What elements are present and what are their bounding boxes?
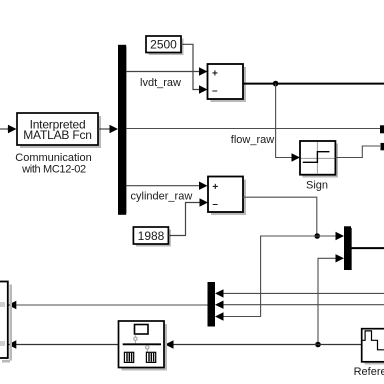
wire junction J1 down to Sign [276,84,300,162]
mux M2 bar (flipped) [208,282,216,327]
cropped port box B2 [381,143,384,150]
label Communication with MC12-02 [15,152,91,176]
far-left block (cropped subsystem) [0,282,12,363]
sum block S2 [208,177,246,216]
demux D1 bar [118,45,127,215]
svg-text:Communication: Communication [15,152,91,164]
Sign block [300,141,338,178]
wire Reference up to mux M1 input 2 [318,254,344,344]
wire MATLAB Fcn to demux [98,125,118,133]
wire 2500 to sum1 minus input [181,44,208,93]
wire Sign output to edge box [335,146,380,158]
svg-text:+: + [212,182,218,193]
svg-text:2500: 2500 [150,38,177,52]
mux M1 bar [344,226,352,270]
wire sum2 output to junction J2 [243,197,317,236]
wire switch block to far-left block [8,340,119,348]
svg-text:MATLAB Fcn: MATLAB Fcn [23,128,91,142]
cropped port box B1 [380,125,384,133]
wire demux to right edge (flow_raw) [126,128,380,130]
wire demux to sum1 (lvdt_raw) [126,67,207,75]
svg-text:–: – [212,199,218,210]
node junction J2 [314,233,320,239]
wire mux M1 output (bold) [351,247,384,249]
svg-text:with MC12-02: with MC12-02 [21,163,86,175]
switch block (scope/switch subsystem) [119,321,168,371]
Reference block (cropped signal builder) [362,329,384,365]
wire J2 left and down to mux M2 input 3 [215,236,317,321]
Interpreted MATLAB Fcn U1 [17,113,101,148]
svg-text:Reference: Reference [354,366,384,378]
node junction J1 [273,81,279,87]
constant 1988 [133,227,171,247]
wire Reference output line to switch block [165,340,362,348]
wire 1988 to sum2 minus input [168,198,208,235]
svg-text:–: – [212,85,218,96]
wire input to Interpreted MATLAB Fcn [0,125,17,133]
wire right edge to mux M2 input 2 [215,301,384,309]
wire right edge to mux M2 input 1 [215,289,384,297]
striped box 1 [124,352,133,362]
svg-text:1988: 1988 [138,229,165,243]
wire J2 to mux M1 input 1 [317,232,344,240]
wire mux M2 output to far-left block [8,301,208,309]
node junction J3 [315,342,321,348]
svg-text:Sign: Sign [306,179,328,191]
svg-text:cylinder_raw: cylinder_raw [131,191,193,203]
svg-text:+: + [212,69,218,80]
svg-text:lvdt_raw: lvdt_raw [140,77,181,89]
wire demux to sum2 (cylinder_raw) [126,182,207,190]
sum block S1 [208,64,247,102]
wire sum1 output (bold) to right edge [244,83,384,85]
constant 2500 [146,36,184,55]
svg-text:flow_raw: flow_raw [231,134,274,146]
striped box 2 [146,352,155,362]
